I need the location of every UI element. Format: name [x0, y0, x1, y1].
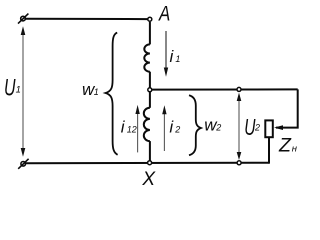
terminal input top-left [21, 16, 26, 21]
node U2 top junction [237, 87, 241, 91]
current arrow i2 (up) [163, 113, 165, 151]
svg-text:A: A [157, 2, 170, 25]
svg-text:U: U [4, 75, 16, 102]
svg-text:1: 1 [94, 87, 99, 97]
svg-text:2: 2 [215, 123, 221, 133]
svg-text:1: 1 [16, 85, 21, 96]
wire between coils [149, 72, 151, 108]
arrowhead into load [274, 125, 283, 130]
wire load to bottom rail [268, 138, 270, 164]
coil upper (3 arcs) [144, 44, 150, 71]
node X [148, 161, 152, 165]
svg-text:Z: Z [278, 135, 292, 157]
brace w1 [106, 33, 118, 155]
wire mid rail (tap) [150, 88, 298, 90]
node A [148, 17, 152, 21]
svg-text:н: н [292, 144, 298, 155]
svg-text:2: 2 [174, 125, 180, 135]
wire right drop to load [276, 89, 298, 127]
wire coil to bottom rail [149, 141, 151, 163]
load impedance Zn [265, 120, 273, 137]
svg-text:12: 12 [127, 125, 137, 135]
node tap junction [148, 88, 152, 92]
current arrow i12 (up) [137, 113, 139, 152]
svg-text:i: i [169, 118, 174, 137]
svg-text:2: 2 [254, 123, 260, 133]
voltage arrow U1 (double-headed) [22, 29, 24, 154]
svg-text:X: X [141, 169, 156, 190]
wire bottom rail [25, 162, 269, 165]
coil lower (3 arcs) [144, 108, 150, 141]
wire top rail [25, 18, 148, 20]
terminal input bottom-left [21, 162, 26, 167]
brace w2 [189, 95, 201, 155]
voltage arrow U2 (double-headed) [238, 95, 240, 157]
svg-text:1: 1 [175, 54, 180, 64]
winding w1 upper section with coil [149, 22, 151, 45]
node U2 bottom junction [237, 161, 241, 165]
svg-text:i: i [121, 118, 126, 137]
current arrow i1 (down) [165, 31, 167, 69]
svg-text:i: i [170, 47, 175, 66]
